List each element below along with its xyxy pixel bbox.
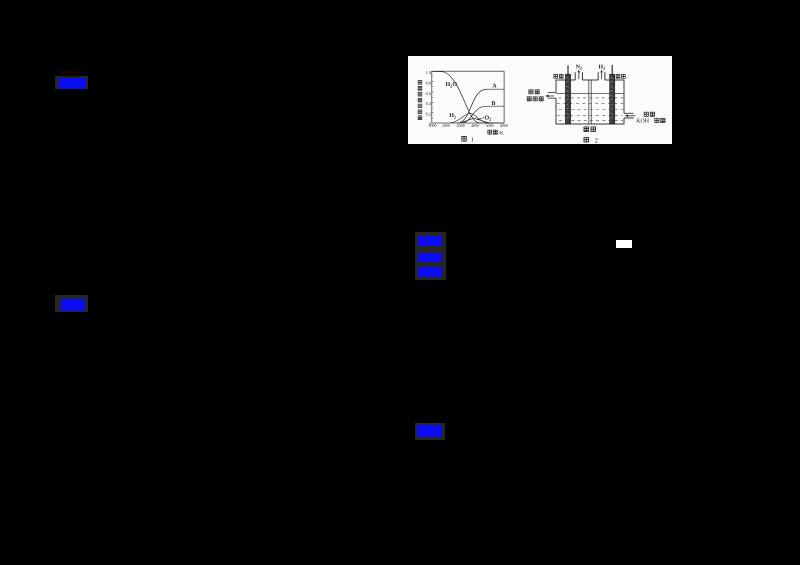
small white blank box bbox=[616, 240, 632, 248]
fig2 liquid dashes bbox=[557, 98, 624, 120]
svg-text:1000: 1000 bbox=[428, 123, 436, 128]
fig2 cathode speckle bbox=[611, 77, 613, 119]
svg-text:H2: H2 bbox=[449, 113, 456, 119]
fig1 caption 图 1 bbox=[462, 136, 474, 143]
fig2 label KOH 溶液 bbox=[636, 118, 665, 124]
svg-text:KOH: KOH bbox=[636, 119, 650, 125]
highlight block 3 grey backing bbox=[415, 423, 445, 440]
highlight block 2 grey backing bbox=[55, 295, 88, 312]
fig1 y major ticks bbox=[432, 82, 434, 113]
svg-text:0.6: 0.6 bbox=[426, 91, 432, 96]
fig1 curve B bbox=[462, 106, 504, 123]
fig2 liquid surface line bbox=[556, 93, 624, 95]
svg-text:5000: 5000 bbox=[486, 123, 494, 128]
fig2 outlet arrow bbox=[548, 95, 554, 97]
fig1 x-axis title 温度/K bbox=[488, 130, 504, 136]
svg-text:3000: 3000 bbox=[457, 123, 465, 128]
fig2 cathode wire bbox=[611, 65, 613, 75]
fig1 curve O2 bump bbox=[457, 119, 495, 123]
svg-text:N2: N2 bbox=[576, 64, 583, 70]
stacked answer links grey backing bbox=[415, 232, 446, 280]
fig1 curve H2 bump bbox=[450, 113, 493, 123]
svg-text:/K: /K bbox=[499, 130, 504, 136]
fig2 anode speckle bbox=[567, 77, 569, 119]
svg-text:0.4: 0.4 bbox=[426, 101, 432, 106]
highlight block 2 blue bbox=[61, 299, 85, 311]
svg-text:1.0: 1.0 bbox=[426, 70, 431, 75]
fig2 caption 图 2 bbox=[584, 137, 598, 144]
fig2 label 阳极 (anode) bbox=[554, 74, 563, 78]
fig2 H2 up arrow bbox=[601, 72, 603, 79]
svg-text:H2: H2 bbox=[598, 64, 605, 70]
fig2 inlet pipe lines bbox=[624, 113, 634, 118]
fig1 y-axis title 气体的体积分数 bbox=[418, 80, 422, 119]
fig2 N2 up arrow bbox=[578, 72, 580, 79]
highlight block 1 blue bbox=[59, 78, 86, 89]
fig2 inlet arrow bbox=[628, 115, 636, 117]
svg-text:O2: O2 bbox=[485, 115, 492, 121]
faint red remnant above block 1 bbox=[60, 71, 80, 76]
fig1 y tick labels bbox=[426, 70, 432, 126]
fig2 tank outline with gaps (top chimneys, left outlet, right inlet) bbox=[556, 80, 624, 124]
highlight block 1 grey backing bbox=[55, 76, 88, 89]
fig2 label 电解 bbox=[529, 90, 539, 94]
fig1 curve H2O bbox=[432, 71, 504, 123]
fig2 label 尿素 bbox=[644, 112, 654, 116]
svg-text:H2O: H2O bbox=[446, 82, 458, 88]
svg-text:4000: 4000 bbox=[471, 123, 479, 128]
stacked link blue 1 bbox=[418, 236, 442, 246]
stacked link blue 2 bbox=[418, 253, 442, 262]
fig1 plot box bbox=[432, 71, 504, 123]
fig1 curve A bbox=[459, 89, 505, 123]
fig2 cathode electrode bar bbox=[610, 74, 615, 124]
fig2 anode electrode bar bbox=[565, 74, 570, 124]
svg-text:1: 1 bbox=[471, 136, 474, 143]
fig2 anode wire bbox=[567, 65, 569, 74]
fig2 label 阴极 (cathode) bbox=[616, 74, 625, 78]
fig2 diaphragm double line bbox=[589, 80, 591, 124]
svg-text:B: B bbox=[492, 101, 496, 107]
fig1 y minor ticks bbox=[432, 76, 433, 118]
svg-text:A: A bbox=[492, 84, 497, 90]
fig2 chimney walls bbox=[575, 72, 605, 80]
stacked link blue 3 bbox=[418, 267, 442, 277]
fig2 label 隔膜 (diaphragm) bbox=[584, 127, 596, 132]
fig1 x tick labels bbox=[428, 123, 508, 128]
figure panel (white) bbox=[408, 56, 672, 144]
svg-text:2000: 2000 bbox=[442, 123, 450, 128]
svg-text:2: 2 bbox=[595, 137, 598, 144]
highlight block 3 blue bbox=[417, 425, 442, 437]
fig2 outlet pipe lines bbox=[548, 92, 556, 98]
svg-text:0.2: 0.2 bbox=[426, 112, 431, 117]
svg-text:0.8: 0.8 bbox=[426, 80, 431, 85]
fig2 label 排出液 bbox=[527, 97, 543, 101]
svg-text:6000: 6000 bbox=[500, 123, 508, 128]
